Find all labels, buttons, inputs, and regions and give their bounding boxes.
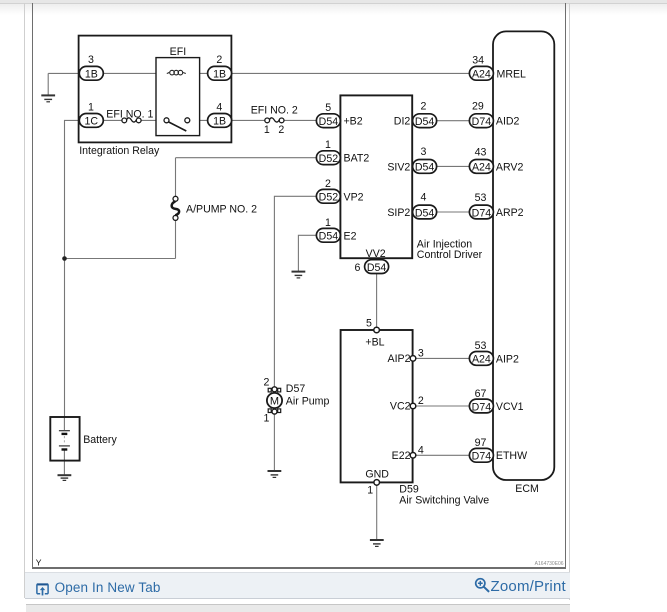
svg-text:Air Pump: Air Pump (286, 396, 330, 408)
svg-text:VV2: VV2 (366, 248, 386, 260)
ground (air pump) (268, 471, 282, 477)
svg-text:43: 43 (475, 147, 487, 159)
svg-text:Integration Relay: Integration Relay (79, 145, 160, 157)
connector D54 pin1 E2 (316, 217, 340, 243)
pin E22 (410, 453, 416, 459)
relay U1 Integration Relay box (79, 36, 232, 143)
svg-text:3: 3 (418, 347, 424, 359)
connector A24 pin43 ARV2 (469, 147, 523, 174)
wire BAT2 horizontal (176, 157, 317, 159)
svg-text:Air Switching Valve: Air Switching Valve (399, 494, 489, 506)
wire VC2 row (416, 405, 470, 407)
outer container light borders (24, 3, 25, 598)
svg-text:D54: D54 (319, 116, 339, 128)
svg-text:1: 1 (367, 485, 373, 497)
svg-text:A24: A24 (472, 162, 491, 174)
svg-text:2: 2 (216, 54, 222, 66)
connector D54 pin2 DI2 (413, 100, 437, 128)
svg-text:1: 1 (325, 217, 331, 229)
svg-text:97: 97 (475, 437, 487, 449)
wire E22 row (416, 454, 470, 456)
connector A24 pin53 AIP2 (469, 340, 519, 366)
wire VV2 down (376, 274, 378, 328)
wire E2 to ground (298, 235, 316, 271)
fuse EFI NO.1 (106, 108, 153, 122)
relay coil EFI (167, 70, 186, 75)
ground (relay) (41, 95, 55, 101)
svg-text:D74: D74 (472, 207, 492, 219)
svg-text:53: 53 (475, 192, 487, 204)
pin GND (374, 480, 380, 486)
wire 1C to battery (65, 120, 80, 417)
ground (E2) (292, 272, 306, 278)
ground (battery) (58, 475, 72, 480)
svg-text:2: 2 (264, 376, 270, 388)
box U3 Air Switching Valve (341, 330, 413, 482)
connector D74 pin67 VCV1 (469, 388, 523, 414)
svg-text:AIP2: AIP2 (496, 353, 519, 365)
connector D54 pin3 SIV2 (413, 146, 437, 174)
svg-text:1: 1 (325, 139, 331, 151)
svg-text:67: 67 (475, 388, 487, 400)
ECM box (493, 31, 554, 480)
svg-text:4: 4 (418, 444, 424, 456)
connector D54 pin4 SIP2 (413, 192, 437, 220)
wire ground to relay pin3 (48, 73, 79, 95)
pin AIP2 (410, 356, 416, 362)
svg-text:4: 4 (421, 192, 427, 204)
svg-text:AIP2: AIP2 (388, 353, 411, 365)
svg-text:A/PUMP NO. 2: A/PUMP NO. 2 (186, 203, 257, 215)
wire battery internal (63, 417, 65, 474)
wire SIV2 row (437, 165, 470, 167)
svg-text:BAT2: BAT2 (344, 153, 370, 165)
wire relay top internal (103, 72, 207, 74)
svg-text:D57: D57 (286, 383, 306, 395)
svg-text:VC2: VC2 (390, 401, 411, 413)
wire GND down (376, 485, 378, 539)
fuse EFI NO.2 (251, 105, 298, 136)
svg-text:M: M (270, 396, 279, 408)
connector D74 pin97 ETHW (469, 437, 527, 463)
connector D74 pin29 AID2 (469, 100, 519, 128)
top gray band (0, 0, 667, 4)
svg-text:2: 2 (278, 124, 284, 136)
svg-text:5: 5 (325, 102, 331, 114)
svg-text:D54: D54 (415, 116, 435, 128)
svg-text:4: 4 (216, 102, 222, 114)
svg-text:5: 5 (366, 317, 372, 329)
svg-text:ECM: ECM (515, 483, 539, 495)
pin 1 oval 1C (79, 102, 103, 128)
svg-text:3: 3 (88, 54, 94, 66)
svg-text:D52: D52 (319, 153, 339, 165)
svg-text:D54: D54 (415, 207, 435, 219)
svg-text:2: 2 (325, 178, 331, 190)
diagram frame dark borders (32, 3, 34, 569)
ground (valve GND) (370, 540, 384, 546)
svg-text:SIV2: SIV2 (387, 161, 410, 173)
svg-text:3: 3 (421, 146, 427, 158)
svg-text:VP2: VP2 (344, 191, 364, 203)
svg-text:D54: D54 (319, 231, 339, 243)
junction node (62, 256, 67, 261)
svg-text:GND: GND (365, 469, 389, 481)
wire relay bottom internal (103, 119, 207, 121)
svg-text:1: 1 (264, 124, 270, 136)
wire MREL (232, 72, 470, 74)
connector D52 pin1 BAT2 (316, 139, 340, 165)
pin +BL (374, 327, 380, 333)
svg-text:A164730E06: A164730E06 (535, 561, 564, 567)
pin 4 oval 1B (208, 102, 232, 128)
svg-text:1: 1 (264, 412, 270, 424)
pin VC2 (410, 403, 416, 409)
svg-text:Control Driver: Control Driver (417, 249, 483, 261)
svg-text:ARP2: ARP2 (496, 207, 524, 219)
svg-text:A24: A24 (472, 69, 491, 81)
svg-text:AID2: AID2 (496, 116, 520, 128)
svg-text:A24: A24 (472, 354, 491, 366)
svg-text:1C: 1C (85, 116, 99, 128)
wire BAT2 vertical with fuse gap (175, 158, 177, 259)
svg-text:+B2: +B2 (344, 116, 363, 128)
relay switch (164, 118, 169, 123)
wire DI2 row (437, 120, 470, 122)
svg-text:1: 1 (88, 102, 94, 114)
wire VP2 to pump (274, 196, 316, 386)
svg-text:MREL: MREL (497, 68, 527, 80)
relay inner box (156, 58, 200, 136)
svg-text:1B: 1B (213, 116, 226, 128)
svg-text:6: 6 (354, 262, 360, 274)
svg-text:34: 34 (472, 55, 484, 67)
svg-text:E2: E2 (344, 230, 357, 242)
svg-text:2: 2 (421, 100, 427, 112)
svg-text:DI2: DI2 (394, 116, 411, 128)
svg-text:53: 53 (475, 340, 487, 352)
svg-text:SIP2: SIP2 (387, 207, 410, 219)
fuse A/PUMP NO.2 (172, 196, 258, 220)
svg-text:D74: D74 (472, 116, 492, 128)
wire pump to ground (273, 414, 275, 470)
connector D74 pin53 ARP2 (469, 192, 523, 219)
svg-text:EFI NO. 1: EFI NO. 1 (106, 108, 153, 120)
motor M1 D57 Air Pump (264, 376, 330, 424)
svg-text:D54: D54 (367, 262, 387, 274)
connector D54 pin6 VV2 (354, 260, 388, 274)
svg-text:2: 2 (418, 395, 424, 407)
svg-text:E22: E22 (392, 450, 411, 462)
wire AIP2 row (416, 357, 470, 359)
band below toolbar (26, 604, 570, 612)
connector A24 pin34 MREL (469, 55, 526, 81)
svg-text:ARV2: ARV2 (496, 161, 524, 173)
svg-text:EFI: EFI (170, 46, 186, 58)
box U2 Air Injection Control Driver (340, 95, 412, 258)
pin 3 oval 1B (79, 54, 103, 81)
svg-text:D74: D74 (472, 401, 492, 413)
connector D54 pin5 +B2 (316, 102, 340, 128)
svg-text:ETHW: ETHW (496, 450, 527, 462)
svg-text:VCV1: VCV1 (496, 401, 524, 413)
wire SIP2 row (437, 211, 470, 213)
wire junction row (65, 258, 176, 260)
svg-text:29: 29 (472, 100, 484, 112)
svg-text:Battery: Battery (83, 434, 117, 446)
svg-text:EFI NO. 2: EFI NO. 2 (251, 105, 298, 117)
svg-text:+BL: +BL (365, 337, 384, 349)
svg-text:D52: D52 (319, 192, 339, 204)
pin 2 oval 1B (208, 54, 232, 81)
connector D52 pin2 VP2 (316, 178, 340, 204)
battery B1 (50, 417, 117, 461)
svg-text:D74: D74 (472, 451, 492, 463)
wire EFI NO.2 run (232, 119, 317, 121)
bottom toolbar (25, 572, 570, 599)
svg-text:1B: 1B (85, 69, 98, 81)
svg-text:1B: 1B (213, 69, 226, 81)
svg-text:Y: Y (36, 557, 42, 567)
svg-text:D54: D54 (415, 162, 435, 174)
